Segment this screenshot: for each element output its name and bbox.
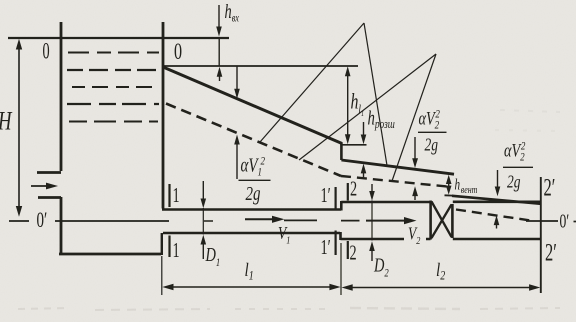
svg-text:2: 2 bbox=[350, 177, 357, 200]
section line 1-1 ticks bbox=[168, 184, 170, 257]
datum line 0-0 (free surface level) bbox=[8, 37, 229, 39]
pipe 1 top wall bbox=[162, 208, 341, 211]
pipe 2 top wall before valve bbox=[341, 201, 430, 204]
svg-text:2g: 2g bbox=[246, 182, 261, 205]
svg-text:1′: 1′ bbox=[321, 235, 331, 258]
label alphaV1^2/2g fraction bbox=[241, 153, 266, 204]
datum 0' segment to pipe bbox=[55, 220, 169, 222]
expansion step top bbox=[340, 201, 343, 211]
H dimension arrow bbox=[16, 39, 22, 217]
svg-text:1: 1 bbox=[173, 183, 180, 206]
svg-text:αV12: αV12 bbox=[241, 153, 266, 178]
tank bottom wall bbox=[59, 253, 161, 256]
D1 dimension line across pipe bbox=[202, 208, 204, 235]
V1 flow arrow bbox=[245, 216, 285, 223]
energy line expansion drop bbox=[340, 143, 343, 161]
leader line L4 bbox=[392, 54, 436, 181]
valve right bar bbox=[451, 204, 454, 238]
right alphaV2 lower arrow bbox=[494, 215, 500, 228]
svg-text:H: H bbox=[0, 107, 13, 136]
l1 dimension line bbox=[162, 284, 340, 290]
datum line 0'-0' (left part) bbox=[9, 220, 29, 222]
alphaV1^2/2g dimension lower arrow bbox=[234, 135, 240, 180]
h_rozsh upper arrow bbox=[361, 122, 367, 144]
svg-text:0: 0 bbox=[174, 39, 182, 64]
tick for h_rozsh top bbox=[342, 144, 367, 146]
energy line pipe 2 bbox=[341, 160, 454, 174]
h_l1 dimension double arrow bbox=[345, 66, 351, 144]
mid alphaV2 lower arrow bbox=[412, 186, 418, 200]
h_vx arrow lower bbox=[217, 67, 223, 81]
l1/l2 shared extension line bbox=[340, 243, 342, 295]
expansion step bottom bbox=[339, 232, 342, 240]
leader line L3 bbox=[299, 54, 436, 160]
inflow arrow bbox=[31, 183, 58, 190]
leader line L2 bbox=[364, 23, 387, 166]
h_rozsh lower arrow bbox=[361, 164, 367, 177]
l1 extension line left bbox=[161, 256, 163, 295]
water surface shading dashes bbox=[67, 53, 160, 122]
tank left wall bbox=[37, 22, 61, 255]
energy line after valve with back tick bbox=[445, 195, 542, 204]
svg-text:0′: 0′ bbox=[37, 208, 48, 233]
svg-text:0: 0 bbox=[43, 39, 50, 64]
pipe 1 bottom wall bbox=[163, 232, 340, 235]
pipe 2 bottom wall after valve bbox=[453, 238, 541, 241]
right alphaV2^2/2g label fraction bbox=[504, 140, 526, 192]
leader line L1 bbox=[260, 23, 364, 142]
svg-text:2g: 2g bbox=[425, 136, 439, 155]
axis dash at section 1 bbox=[204, 220, 213, 222]
svg-text:0′: 0′ bbox=[560, 210, 570, 232]
svg-text:2: 2 bbox=[350, 241, 357, 264]
energy line pipe 1 bbox=[163, 67, 342, 144]
l2 dimension line bbox=[342, 284, 541, 290]
svg-text:αV22: αV22 bbox=[504, 140, 526, 164]
axis dash at expansion bbox=[341, 220, 360, 222]
section line 2'-2' with extension bbox=[540, 177, 542, 293]
section line 2-2 ticks bbox=[347, 183, 349, 259]
svg-text:2′: 2′ bbox=[544, 173, 556, 201]
tank right wall bbox=[162, 22, 165, 209]
svg-text:αV22: αV22 bbox=[419, 108, 441, 132]
right alphaV2 upper arrow bbox=[495, 170, 501, 196]
D2 dimension line across pipe bbox=[371, 201, 373, 241]
valve cross diagonals bbox=[432, 202, 452, 239]
alphaV1^2/2g dimension upper arrow bbox=[234, 66, 240, 99]
svg-text:2′: 2′ bbox=[545, 238, 557, 266]
svg-text:1: 1 bbox=[173, 238, 180, 261]
piezometric line pipe 2 (dashed) bbox=[341, 176, 447, 187]
svg-text:2g: 2g bbox=[507, 173, 521, 192]
h_vx arrow upper bbox=[216, 5, 222, 66]
D2 dimension arrows bbox=[369, 184, 375, 261]
pipe 2 top wall after valve bbox=[453, 201, 541, 204]
valve left bar bbox=[429, 201, 432, 240]
tank bottom to pipe connector bbox=[161, 233, 163, 255]
h_vent dimension arrows bbox=[446, 175, 452, 195]
piezometric line pipe 1 (dashed) bbox=[166, 104, 341, 177]
D1 dimension arrows bbox=[201, 181, 207, 259]
pipe 2 bottom wall before valve bbox=[341, 238, 431, 241]
datum line 0'-0' right part bbox=[526, 220, 558, 222]
V2 flow arrow bbox=[366, 217, 417, 224]
mid alphaV2^2/2g label fraction bbox=[419, 108, 441, 155]
svg-text:1′: 1′ bbox=[321, 183, 331, 206]
section line 1'-1' ticks bbox=[335, 187, 337, 255]
datum 0' right edge bbox=[574, 221, 576, 223]
axis dash in pipe1 bbox=[284, 219, 317, 221]
horizontal reference line at entrance energy level bbox=[163, 65, 358, 67]
mid alphaV2 upper arrow bbox=[412, 137, 418, 168]
faint scan bleed-through marks bbox=[18, 110, 560, 310]
piezometric line after valve (dashed) bbox=[456, 210, 531, 221]
